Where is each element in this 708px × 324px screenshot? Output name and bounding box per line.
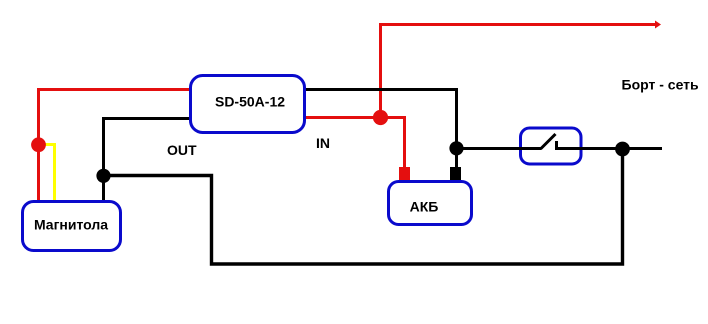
- wire black bottom return from node D1 to node D3: [104, 149, 623, 264]
- wire red node R2 to АКБ plus terminal: [381, 118, 405, 171]
- wire red feed from Борт-сеть to node R2: [381, 21, 662, 118]
- wire black SD-50A-12 IN ground to АКБ minus terminal: [300, 90, 457, 171]
- svg-text:Магнитола: Магнитола: [34, 217, 108, 233]
- switch S1 blade: [541, 134, 556, 149]
- wire black switch S1 to node D3 and Борт-сеть: [582, 147, 662, 150]
- node R2 junction dot (red): [373, 110, 388, 125]
- label OUT: [167, 142, 197, 158]
- switch S1 right contact: [555, 141, 585, 150]
- wire black SD-50A-12 OUT ground to Магнитола: [104, 119, 196, 204]
- svg-text:OUT: OUT: [167, 142, 197, 158]
- svg-text:АКБ: АКБ: [410, 199, 439, 215]
- switch S1 body: [521, 128, 582, 164]
- net label Борт - сеть: [622, 77, 700, 93]
- svg-text:Борт - сеть: Борт - сеть: [622, 77, 700, 93]
- node D3 junction dot (black): [615, 142, 630, 157]
- car stereo Магнитола: [23, 202, 121, 251]
- node D2 junction dot (black): [449, 141, 463, 155]
- switch S1 left contact: [514, 147, 541, 150]
- wire yellow node R1 to Магнитола: [44, 145, 55, 204]
- svg-text:SD-50A-12: SD-50A-12: [215, 94, 285, 110]
- battery minus terminal (black): [450, 167, 461, 180]
- node R1 junction dot (red): [31, 137, 46, 152]
- label IN: [316, 135, 330, 151]
- converter U1 SD-50A-12: [191, 76, 305, 133]
- svg-text:IN: IN: [316, 135, 330, 151]
- battery АКБ: [389, 182, 472, 225]
- wire red SD-50A-12 IN to node R2: [300, 116, 382, 119]
- battery plus terminal (red): [399, 167, 410, 180]
- node D1 junction dot (black): [96, 169, 110, 183]
- wire red SD-50A-12 OUT to Магнитола: [39, 90, 196, 204]
- wire black node D2 to switch S1: [456, 147, 519, 150]
